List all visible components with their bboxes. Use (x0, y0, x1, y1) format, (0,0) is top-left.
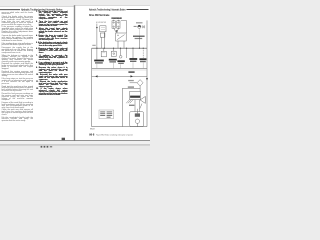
ignition switch name label (136, 22, 143, 23)
wire: hour meter to bus (103, 32, 105, 48)
pilot line wire (92, 75, 147, 77)
left page header rule (0, 9, 20, 11)
flow arrow left (95, 75, 97, 77)
left page (0, 6, 74, 142)
svg-text:Hydraulic Troubleshooting/ Aut: Hydraulic Troubleshooting/ Automatic Bra… (21, 8, 63, 12)
wire: F2 to relay (117, 28, 119, 33)
svg-text:98-8: 98-8 (90, 129, 95, 131)
controller label (139, 58, 146, 62)
brake actuator assembly (130, 109, 144, 127)
page seam between left and right page (74, 5, 75, 140)
frame wire right (146, 20, 148, 126)
ground hatch under reservoir (126, 100, 133, 104)
return loop wire horizontal (122, 87, 140, 89)
wire: battery to bus (138, 37, 140, 49)
harness band lower edge (92, 69, 147, 71)
reservoir T1 (130, 91, 141, 99)
lever switch S3 (111, 51, 116, 56)
solenoid label (129, 58, 137, 62)
wire: pilot branch into valve V1 (130, 82, 138, 84)
relay K1 (116, 33, 127, 41)
frame wire left (91, 48, 93, 126)
wire: node A down to bus (96, 24, 98, 49)
arrow junction below fuses (116, 30, 118, 32)
check valve (triangle) (140, 96, 145, 103)
frame wire bottom (92, 126, 147, 128)
node A (dot left of hour meter) (96, 27, 97, 28)
hour meter M1 (100, 26, 106, 32)
ignition switch terminal label (134, 26, 137, 27)
wire: bus to lever switch (113, 48, 115, 51)
wire: relay pin to bus (117, 41, 119, 48)
svg-text:Figure 98-8: Brake on (during: Figure 98-8: Brake on (during interrupti… (96, 134, 133, 137)
pressure switch label (94, 60, 104, 64)
wire: F1 to relay (114, 28, 117, 33)
fuse F2 (117, 21, 120, 28)
wire: fuse feed right then down to relay (121, 21, 127, 33)
battery B1 plate (133, 35, 145, 38)
battery label (135, 38, 143, 39)
harness band wire (92, 68, 147, 70)
wire: bus to horn (120, 48, 122, 55)
wire: bus to solenoid label (132, 48, 134, 58)
horn label (117, 60, 124, 64)
wire: sender box to bus (101, 37, 103, 48)
fuse F1 (112, 21, 115, 28)
pressure switch S2 (101, 51, 106, 56)
wire: check valve to brake (140, 104, 142, 109)
node label above pilot line (128, 71, 134, 73)
lower page stack edge line (0, 144, 150, 147)
ignition switch S1 (138, 25, 145, 28)
stub wires from labels to harness band (97, 62, 143, 68)
bus wire (main horizontal) (92, 47, 147, 49)
sender unit box below hour meter (100, 33, 105, 37)
svg-text:Hydraulic Troubleshooting | Au: Hydraulic Troubleshooting | Automatic Br… (89, 8, 126, 12)
svg-text:FUSE RELAY: FUSE RELAY (112, 17, 123, 20)
right page header rule (127, 9, 149, 11)
wire: relay pin 2 to bus (123, 41, 125, 48)
svg-text:HOUR METER: HOUR METER (96, 22, 106, 24)
wire: valve V1 down to reservoir (139, 86, 141, 91)
wire: bus down to label area (96, 48, 98, 59)
legend box (99, 110, 114, 119)
lever switch label (109, 59, 117, 63)
flow arrow right (131, 75, 133, 77)
toolbar marks (41, 146, 53, 148)
brake port label (129, 105, 134, 106)
wire: relay feed below bus (126, 48, 128, 58)
svg-text:98-8: 98-8 (89, 134, 95, 137)
wire: bus to pressure switch (103, 48, 105, 51)
flow arrow on right frame wire (146, 78, 148, 80)
wire: reservoir to brake port 1 (134, 100, 136, 112)
wire: dashed bus to controller (142, 48, 144, 58)
wire: ignition switch to battery (138, 29, 140, 36)
scroll tab above bottom edge (62, 138, 65, 140)
left page column 1 text (2, 13, 33, 124)
left page column 2 text (36, 12, 68, 98)
wire: reservoir to brake port 2 (139, 100, 141, 112)
shuttle valve V1 (diamond) (137, 80, 143, 86)
return loop wire vertical (121, 88, 123, 126)
bottom page edge line (0, 139, 150, 142)
fuse block label (111, 17, 121, 18)
fuse F1 top nub (113, 20, 115, 21)
valve label above diamond (128, 80, 134, 81)
bus junction dots (96, 48, 143, 49)
horn H1 (small circle) (119, 56, 122, 59)
wire label near left corner (92, 45, 95, 46)
reservoir label (128, 86, 134, 87)
line work overlay (0, 0, 150, 150)
fuse F2 top nub (117, 20, 119, 21)
right page (75, 5, 150, 142)
svg-text:Drive Will Not Brake: Drive Will Not Brake (89, 13, 110, 17)
